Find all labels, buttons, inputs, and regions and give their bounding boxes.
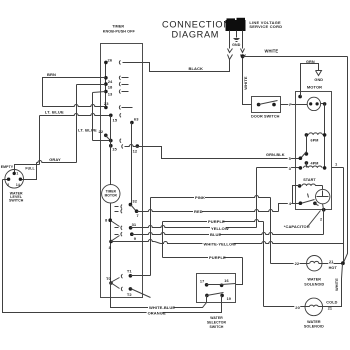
svg-text:DOOR SWITCH: DOOR SWITCH bbox=[251, 115, 280, 119]
wire GRN-BLK from timer 12 to motor pin 5 bbox=[125, 145, 138, 147]
motor winding 6PM bbox=[305, 133, 309, 137]
svg-text:1: 1 bbox=[335, 161, 338, 166]
hot solenoid riser (pink) bbox=[270, 198, 272, 264]
timer contact 26 bbox=[104, 61, 108, 65]
start winding stub to pin 4 row bbox=[293, 186, 300, 204]
wire from contact 18 down-left (gray riser) bbox=[77, 84, 106, 86]
door switch contact right bbox=[272, 103, 276, 107]
svg-text:26: 26 bbox=[108, 57, 113, 62]
wire ORANGE from water level pin 2 around page bbox=[3, 180, 222, 313]
svg-text:GRN-BLK: GRN-BLK bbox=[266, 152, 285, 157]
service cord right lead wire bbox=[242, 31, 244, 49]
label ORANGE bbox=[147, 311, 163, 315]
svg-text:19: 19 bbox=[227, 297, 231, 301]
svg-text:WHITE: WHITE bbox=[335, 278, 339, 291]
wire white down to door switch bbox=[243, 59, 252, 105]
wire door switch to motor P bbox=[281, 104, 308, 106]
svg-text:WATER: WATER bbox=[307, 320, 321, 324]
motor switch blade 5 bbox=[301, 152, 307, 159]
selector blade lower bbox=[207, 293, 224, 296]
svg-text:ORANGE: ORANGE bbox=[148, 311, 166, 316]
label PURPLE upper bbox=[207, 220, 223, 224]
timer contact 15 lower bbox=[109, 144, 113, 148]
svg-text:16: 16 bbox=[224, 279, 228, 283]
arrowhead left lead bbox=[228, 49, 233, 53]
svg-text:MOTOR: MOTOR bbox=[307, 84, 322, 89]
selector internal stubs bbox=[206, 296, 208, 303]
svg-text:32: 32 bbox=[132, 198, 137, 203]
cold water solenoid circle bbox=[305, 298, 323, 316]
timer contact 7 bbox=[135, 209, 139, 213]
svg-text:WATER: WATER bbox=[210, 316, 223, 320]
svg-text:P: P bbox=[289, 102, 292, 107]
svg-text:31: 31 bbox=[132, 222, 137, 227]
junction 140.6 bbox=[109, 139, 113, 143]
timer inner column (15 to timer motor to T0) bbox=[110, 116, 112, 185]
svg-text:GND: GND bbox=[314, 78, 323, 82]
wire LT. BLUE upper run bbox=[40, 114, 111, 116]
svg-text:T2: T2 bbox=[127, 292, 133, 297]
pink/T1 riser bbox=[150, 198, 152, 276]
motor contact 4PM bbox=[305, 161, 309, 165]
svg-text:9: 9 bbox=[134, 236, 137, 241]
wire yellow riser bbox=[256, 168, 258, 228]
motor centrifugal column bbox=[306, 135, 308, 154]
wire to hot solenoid 22 bbox=[271, 263, 307, 265]
motor right column bbox=[324, 104, 326, 168]
svg-text:22: 22 bbox=[99, 129, 104, 134]
svg-text:21: 21 bbox=[328, 307, 332, 311]
timer contact 31 and 9 arcs bbox=[115, 227, 119, 229]
selector contact 17 bbox=[205, 283, 209, 287]
svg-text:63: 63 bbox=[134, 116, 139, 121]
wire to cold solenoid 20 bbox=[264, 306, 306, 308]
ground stub from service cord bbox=[236, 31, 238, 38]
svg-text:22: 22 bbox=[295, 261, 300, 266]
timer contact 32 bbox=[129, 203, 133, 207]
ground symbol motor bbox=[316, 71, 322, 76]
label YELLOW bbox=[210, 226, 226, 230]
selector contact 16 bbox=[220, 284, 224, 288]
label WHITE-BLUE bbox=[148, 305, 174, 309]
svg-text:2: 2 bbox=[320, 218, 322, 222]
timer contact 8 lower bbox=[109, 240, 113, 244]
timer contact 22 bbox=[104, 134, 108, 138]
timer contact 15 upper bbox=[109, 114, 113, 118]
timer contact 32 and 7 arcs bbox=[115, 206, 119, 208]
svg-text:SOLENOID: SOLENOID bbox=[304, 324, 324, 328]
selector contact lower left bbox=[205, 294, 209, 298]
wire pin2 to blue bbox=[323, 210, 325, 235]
timer contact 18 bbox=[104, 82, 108, 86]
svg-text:CONNECTION: CONNECTION bbox=[162, 20, 231, 30]
svg-text:PURPLE: PURPLE bbox=[209, 255, 226, 260]
timer contact T2 bbox=[129, 287, 133, 291]
svg-text:BLUE: BLUE bbox=[210, 232, 222, 237]
wire white down right edge bbox=[344, 57, 348, 263]
svg-text:SELECTOR: SELECTOR bbox=[207, 320, 227, 324]
svg-text:15: 15 bbox=[113, 117, 118, 122]
motor pin5 node bbox=[299, 156, 303, 160]
svg-text:GND: GND bbox=[232, 43, 241, 47]
label PINK bbox=[194, 196, 205, 200]
svg-text:WHITE: WHITE bbox=[265, 49, 279, 54]
svg-text:4PM: 4PM bbox=[311, 161, 319, 165]
timer contact 24 bbox=[104, 76, 108, 80]
ground symbol GND bbox=[234, 38, 240, 40]
svg-text:1: 1 bbox=[16, 172, 18, 176]
arrowhead right lead bbox=[241, 49, 245, 53]
timer box bbox=[101, 44, 143, 298]
svg-text:3: 3 bbox=[289, 166, 292, 171]
wire water level switch full contact riser (lt blue) bbox=[39, 116, 41, 165]
svg-text:TIMER: TIMER bbox=[112, 25, 124, 29]
wire red riser to pin 4 bbox=[279, 204, 301, 212]
wire WHITE-BLUE from T0 bbox=[111, 283, 207, 308]
wire WHITE to right side bbox=[243, 56, 348, 58]
svg-text:21: 21 bbox=[329, 260, 333, 264]
svg-text:12: 12 bbox=[133, 149, 138, 154]
svg-text:RED: RED bbox=[194, 209, 203, 214]
svg-text:20: 20 bbox=[295, 305, 300, 310]
door switch box bbox=[252, 97, 281, 113]
svg-text:LT. BLUE: LT. BLUE bbox=[78, 127, 97, 132]
wire from contact 13 via left jog down to row 140.6 bbox=[93, 92, 106, 93]
pin 1 riser down to solenoid junction bbox=[343, 168, 345, 262]
water level switch pin 14 bbox=[19, 178, 22, 181]
water level switch pin 2 bbox=[7, 178, 10, 181]
motor start switch blade bbox=[301, 200, 315, 204]
svg-text:GRN: GRN bbox=[306, 60, 315, 64]
timer contact 23 bbox=[104, 106, 108, 110]
junction white at hot solenoid bbox=[341, 261, 345, 265]
water selector switch box bbox=[197, 274, 236, 303]
timer common column upper bbox=[105, 63, 107, 108]
wire GRN to ground bbox=[301, 64, 319, 97]
connector chevron right bbox=[241, 55, 246, 59]
timer contact 8 upper bbox=[108, 218, 112, 222]
timer contact 63 bbox=[130, 121, 134, 125]
svg-text:BRN: BRN bbox=[47, 72, 56, 77]
white wire down to cold solenoid bbox=[323, 264, 343, 307]
motor pin 3 row and main winding bbox=[257, 167, 301, 169]
label P bbox=[288, 103, 291, 107]
wire water level switch pin 14 to gray bbox=[21, 163, 37, 180]
svg-text:FULL: FULL bbox=[25, 166, 35, 170]
selector contact 19 bbox=[220, 294, 224, 298]
svg-text:15: 15 bbox=[112, 146, 117, 151]
label BLUE bbox=[209, 232, 220, 236]
svg-text:SWITCH: SWITCH bbox=[9, 199, 24, 203]
purple drop to selector switch bbox=[236, 258, 243, 285]
wire PURPLE lower to water selector bbox=[163, 257, 243, 259]
svg-text:7: 7 bbox=[136, 213, 139, 218]
svg-text:HOT: HOT bbox=[329, 266, 338, 270]
svg-text:YELLOW: YELLOW bbox=[211, 226, 229, 231]
svg-text:WHITE-YELLOW: WHITE-YELLOW bbox=[204, 241, 237, 246]
svg-text:LT. BLUE: LT. BLUE bbox=[45, 110, 64, 115]
svg-text:23: 23 bbox=[104, 101, 109, 106]
connector chevron left bbox=[228, 55, 233, 60]
junction node white service bbox=[241, 54, 245, 58]
water level switch pin 1 bbox=[13, 172, 16, 175]
timer contact 31 bbox=[129, 226, 133, 230]
svg-text:2: 2 bbox=[7, 183, 9, 187]
svg-text:DIAGRAM: DIAGRAM bbox=[171, 30, 219, 40]
svg-text:START: START bbox=[303, 178, 316, 182]
timer contact T1 bbox=[129, 274, 133, 278]
svg-text:GRAY: GRAY bbox=[49, 157, 61, 162]
svg-text:17: 17 bbox=[200, 280, 204, 284]
timer contact T0 bbox=[109, 281, 113, 285]
wire GRAY bbox=[37, 161, 77, 163]
svg-text:24: 24 bbox=[108, 79, 113, 84]
service cord left lead wire bbox=[229, 31, 231, 49]
motor node right of circle bbox=[321, 103, 325, 105]
label GRN-BLK bbox=[265, 153, 283, 157]
label 4 motor pin bbox=[288, 202, 291, 206]
wire water level switch pin 1 row bbox=[15, 165, 40, 174]
timer contact 13 bbox=[104, 90, 108, 94]
svg-text:18: 18 bbox=[108, 85, 113, 90]
label 5 motor pin bbox=[288, 157, 291, 161]
wire PINK from T1 riser to hot solenoid riser bbox=[151, 196, 271, 198]
timer contact 12 bbox=[136, 144, 140, 148]
service cord plug (black block) bbox=[226, 20, 246, 31]
svg-text:MOTOR: MOTOR bbox=[105, 194, 118, 198]
svg-text:WHITE-BLUE: WHITE-BLUE bbox=[149, 305, 175, 310]
water level switch circle bbox=[5, 170, 24, 189]
capacitor bottom node pin 2 bbox=[322, 208, 326, 212]
T2 blade to white-blue bbox=[131, 289, 151, 298]
wire PURPLE upper bbox=[163, 220, 264, 222]
svg-text:KNOB-PUSH OFF: KNOB-PUSH OFF bbox=[103, 29, 136, 33]
motor circle bbox=[307, 97, 320, 110]
door switch contact left bbox=[257, 103, 261, 107]
timer column below motor bbox=[110, 203, 112, 308]
svg-text:BLACK: BLACK bbox=[189, 66, 204, 71]
svg-text:8: 8 bbox=[109, 245, 112, 250]
hot water solenoid circle bbox=[307, 256, 322, 271]
svg-text:SWITCH: SWITCH bbox=[210, 325, 224, 329]
selector blade upper bbox=[207, 284, 222, 286]
wire hot solenoid to white junction bbox=[323, 263, 343, 265]
svg-text:8: 8 bbox=[105, 218, 108, 223]
wire BLACK from service cord to timer contact 26 bbox=[123, 60, 230, 72]
capacitor circle bbox=[316, 189, 330, 203]
svg-text:PINK: PINK bbox=[195, 195, 205, 200]
door switch blade bbox=[259, 101, 278, 105]
label PURPLE lower bbox=[208, 256, 224, 260]
wire RED from 7 to motor pin 4 bbox=[137, 210, 279, 212]
svg-text:PURPLE: PURPLE bbox=[208, 219, 225, 224]
svg-text:6PM: 6PM bbox=[311, 138, 319, 142]
svg-text:SOLENOID: SOLENOID bbox=[304, 283, 324, 287]
svg-text:WHITE: WHITE bbox=[243, 76, 248, 90]
cold solenoid riser (purple) bbox=[263, 222, 265, 307]
wire water level switch pin 2 empty bbox=[3, 179, 9, 181]
wire WHITE-YELLOW from timer to right side bbox=[111, 240, 155, 242]
svg-text:COLD: COLD bbox=[326, 300, 337, 304]
timer contact 9 bbox=[130, 232, 134, 236]
motor grn node bbox=[298, 95, 302, 99]
motor box bbox=[296, 92, 332, 210]
svg-text:13: 13 bbox=[108, 91, 113, 96]
svg-text:*CAPACITOR: *CAPACITOR bbox=[284, 224, 310, 229]
wire BLUE from 9 to capacitor pin 2 bbox=[132, 233, 324, 235]
svg-text:T0: T0 bbox=[106, 276, 112, 281]
wire T1 to pink riser bbox=[131, 275, 151, 277]
svg-text:T1: T1 bbox=[127, 268, 133, 273]
label WHITE-YELLOW bbox=[203, 242, 234, 246]
wire pin 1 out to right bbox=[332, 167, 344, 169]
motor circle terminals bbox=[309, 102, 312, 105]
svg-text:14: 14 bbox=[16, 183, 20, 187]
wire brn lower run to contact 23 bbox=[43, 105, 106, 107]
wire YELLOW from 31 to motor pin 3 riser bbox=[131, 226, 257, 228]
svg-text:EMPTY: EMPTY bbox=[1, 165, 14, 169]
svg-text:SERVICE CORD: SERVICE CORD bbox=[249, 24, 282, 29]
wire BRN from timer 24 bbox=[43, 78, 106, 107]
timer motor circle bbox=[102, 185, 120, 203]
label RED bbox=[193, 209, 201, 213]
purple link riser bbox=[162, 222, 164, 258]
svg-text:WATER: WATER bbox=[308, 277, 322, 281]
